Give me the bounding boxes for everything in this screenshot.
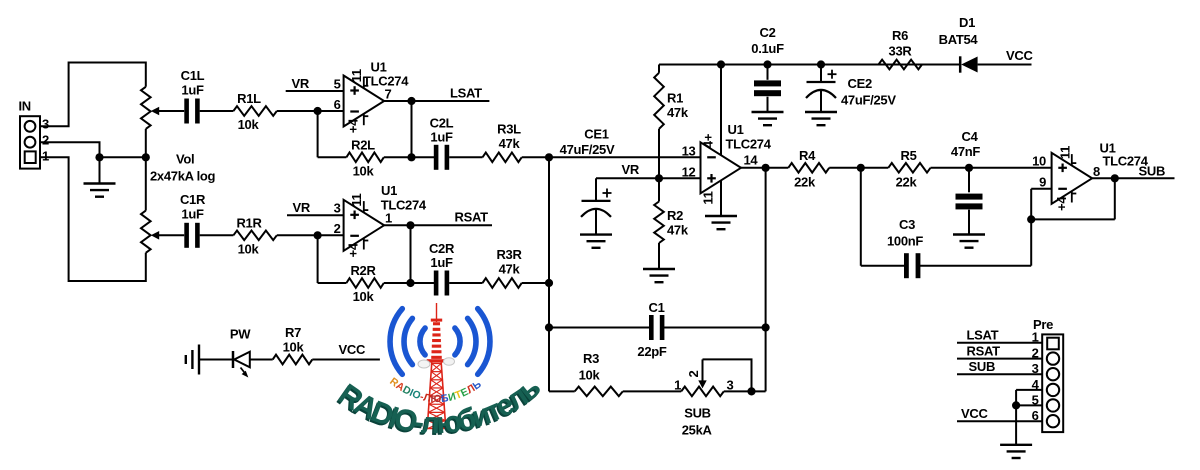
svg-text:+4: +4 [1054, 196, 1069, 211]
node mix L [545, 153, 553, 161]
svg-text:VCC: VCC [961, 406, 988, 421]
wire R3R to mix node [522, 282, 549, 284]
svg-text:1uF: 1uF [181, 83, 204, 98]
svg-text:10k: 10k [238, 117, 260, 132]
op-amp U1B TLC274 [344, 200, 385, 251]
svg-text:3: 3 [727, 377, 734, 392]
ground at input [99, 157, 101, 183]
wire ground to LED [199, 359, 233, 361]
svg-text:13: 13 [682, 143, 696, 158]
wiper arrow L [151, 107, 159, 116]
wire RSAT to pre [957, 358, 1042, 360]
svg-text:VCC: VCC [339, 342, 366, 357]
svg-text:3: 3 [42, 117, 49, 132]
node mix R [545, 279, 553, 287]
ground below CE1 [580, 233, 612, 235]
svg-text:22pF: 22pF [637, 344, 667, 359]
svg-text:33R: 33R [889, 44, 913, 59]
ground rotated PW [198, 345, 200, 375]
svg-text:14: 14 [744, 152, 759, 167]
svg-text:VR: VR [292, 76, 310, 91]
svg-text:C1: C1 [648, 300, 664, 315]
wire R3L to mix node [522, 156, 549, 158]
wire RSAT down to feedback row [410, 225, 412, 283]
wire D1 to VCC [978, 64, 1032, 66]
wire LSAT to pre [957, 342, 1042, 344]
svg-text:3: 3 [334, 201, 341, 216]
resistor R3 [575, 387, 623, 397]
wire VR junction to pin12 [659, 177, 701, 179]
svg-text:10k: 10k [353, 163, 375, 178]
wire pot to output column [724, 390, 766, 392]
wire pin3 to pot top [40, 63, 146, 127]
op-amp U1A power stub bottom [363, 114, 365, 126]
svg-text:CE2: CE2 [848, 76, 872, 91]
wire U1C power to ground [720, 180, 722, 216]
op-amp U1A TLC274 [344, 76, 385, 127]
node mix C1 [545, 323, 553, 331]
capacitor C1L [184, 99, 189, 124]
pot wiper arrow [698, 380, 706, 388]
wire VR to pin3 [287, 214, 344, 216]
svg-text:PW: PW [230, 327, 251, 342]
svg-text:100nF: 100nF [887, 234, 923, 249]
node feedback junction stage3 [1027, 215, 1035, 223]
node pin6 junction [314, 107, 322, 115]
wire R1R to op-amp pin2 [277, 234, 344, 236]
svg-text:0.1uF: 0.1uF [751, 41, 784, 56]
svg-text:10: 10 [1032, 154, 1046, 169]
svg-text:25kA: 25kA [682, 423, 713, 438]
wire stage2 output [741, 167, 788, 169]
svg-text:11: 11 [349, 193, 364, 206]
node feedback junction R [406, 279, 414, 287]
svg-text:U1: U1 [381, 183, 397, 198]
svg-text:R3R: R3R [496, 247, 522, 262]
node feedback junction L [407, 153, 415, 161]
svg-text:BAT54: BAT54 [939, 32, 979, 47]
svg-text:CE1: CE1 [584, 127, 608, 142]
capacitor C3 [904, 253, 909, 278]
svg-text:R4: R4 [799, 148, 816, 163]
resistor R2 column [658, 178, 660, 201]
svg-text:C2L: C2L [430, 116, 454, 131]
op-amp U1B power stub bottom [363, 238, 365, 250]
wire output column down [765, 168, 767, 392]
connector J1 IN [20, 116, 40, 168]
svg-text:Vol: Vol [176, 152, 194, 167]
node pin45 junction [1012, 401, 1020, 409]
ground below C2 [752, 111, 784, 113]
svg-text:+4: +4 [346, 118, 361, 133]
svg-text:VCC: VCC [1006, 48, 1033, 63]
svg-text:1uF: 1uF [430, 130, 453, 145]
potentiometer Vol lower half [145, 157, 147, 210]
wire R7 to VCC [312, 359, 380, 361]
resistor R3R [483, 278, 522, 288]
svg-text:1: 1 [1032, 330, 1039, 345]
wire feedback to output [1031, 218, 1115, 220]
CE1 plus sign [603, 192, 612, 194]
svg-text:10k: 10k [238, 241, 260, 256]
svg-text:3: 3 [1032, 361, 1039, 376]
wire C2L to R3L [449, 156, 482, 158]
wire R4 to R5 [829, 167, 888, 169]
node LSAT junction [407, 97, 415, 105]
svg-text:SUB: SUB [684, 406, 711, 421]
op-amp U1B power stub top [363, 201, 365, 213]
wire C1 row right [663, 327, 766, 329]
wire C1L to R1L [200, 110, 234, 112]
wire SUB to pre [957, 373, 1042, 375]
svg-text:2: 2 [1032, 346, 1039, 361]
svg-text:SUB: SUB [1139, 164, 1166, 179]
svg-text:1uF: 1uF [181, 207, 204, 222]
op-amp U1A power stub top [363, 77, 365, 89]
wire C2R to R3R [449, 282, 482, 284]
resistor R4 [788, 163, 829, 173]
wire mix column [548, 157, 550, 391]
op-amp U1A minus input [350, 110, 359, 112]
svg-text:R7: R7 [285, 325, 301, 340]
wire mix to pin13 [549, 156, 701, 158]
svg-text:RSAT: RSAT [967, 344, 1001, 359]
svg-text:2x47kA log: 2x47kA log [150, 169, 216, 184]
capacitor C2L [434, 145, 439, 170]
op-amp U1D power stub bottom [1071, 191, 1073, 203]
wire SUB output [1092, 177, 1174, 179]
resistor R3L [483, 153, 522, 163]
ground below CE2 [805, 111, 837, 113]
svg-text:VR: VR [293, 200, 311, 215]
resistor R5 [888, 163, 930, 173]
svg-text:U1: U1 [371, 60, 387, 75]
resistor R2R [346, 278, 383, 288]
connector J2 Pre [1042, 334, 1063, 432]
svg-text:12: 12 [682, 164, 696, 179]
potentiometer SUB 25kA [681, 387, 724, 397]
wire R3 to pot [623, 390, 681, 392]
svg-text:2: 2 [686, 370, 701, 377]
resistor R1L [233, 106, 276, 116]
node rail CE2 [817, 60, 825, 68]
wire LED to R7 [250, 359, 273, 361]
node pot junction [747, 387, 755, 395]
wire U1C power to rail [720, 65, 722, 156]
svg-text:5: 5 [1032, 392, 1039, 407]
wire VCC to pre [957, 420, 1042, 422]
capacitor CE1 electrolytic [595, 178, 597, 201]
svg-text:R1R: R1R [236, 215, 262, 230]
op-amp U1C minus input [707, 156, 716, 158]
svg-text:8: 8 [1093, 164, 1100, 179]
svg-text:R2L: R2L [351, 137, 375, 152]
capacitor C4 [968, 168, 970, 193]
svg-text:R1L: R1L [237, 91, 261, 106]
svg-text:C2: C2 [759, 25, 775, 40]
svg-text:22k: 22k [896, 174, 918, 189]
wire LSAT down to feedback row [411, 101, 413, 157]
wire C1 row left [549, 327, 651, 329]
wire pin1 to pot bottom [40, 157, 146, 281]
resistor R7 [273, 355, 313, 365]
svg-text:47uF/25V: 47uF/25V [560, 142, 615, 157]
ground below R2 [643, 268, 675, 270]
diode D1 BAT54 [959, 56, 962, 72]
node VR junction [655, 174, 663, 182]
ground below pre [1000, 444, 1032, 446]
node input-ground junction [95, 153, 103, 161]
op-amp U1D plus input [1058, 167, 1067, 169]
svg-text:LSAT: LSAT [967, 328, 999, 343]
wire R2L to C2L [384, 156, 434, 158]
wire ground node to pot center [100, 156, 146, 158]
svg-text:LSAT: LSAT [450, 85, 482, 100]
svg-text:6: 6 [1032, 408, 1039, 423]
svg-text:10k: 10k [353, 289, 375, 304]
LED arrow [241, 368, 247, 375]
svg-text:2: 2 [334, 221, 341, 236]
svg-text:22k: 22k [794, 174, 816, 189]
svg-text:RSAT: RSAT [455, 210, 489, 225]
svg-text:C2R: C2R [429, 241, 455, 256]
svg-text:47k: 47k [667, 223, 689, 238]
svg-text:47k: 47k [667, 105, 689, 120]
svg-text:R3L: R3L [497, 122, 521, 137]
wire wiper loop [703, 359, 752, 391]
svg-text:VR: VR [622, 162, 640, 177]
svg-text:5: 5 [334, 76, 341, 91]
node output C1 junction [762, 323, 770, 331]
svg-text:1: 1 [674, 377, 681, 392]
potentiometer Vol upper half [141, 87, 151, 129]
LED PW [232, 351, 235, 368]
op-amp U1B plus input [350, 214, 359, 216]
node RSAT junction [406, 221, 414, 229]
wire R2R to C2R [384, 282, 434, 284]
svg-text:7: 7 [385, 86, 392, 101]
wire pin4 pin5 ground column [1015, 390, 1017, 445]
svg-text:R5: R5 [900, 148, 916, 163]
op-amp U1D power stub top [1071, 154, 1073, 166]
wire RSAT output [384, 224, 492, 226]
node R4 R5 junction [857, 164, 865, 172]
svg-text:R2R: R2R [350, 263, 376, 278]
capacitor CE2 electrolytic [820, 65, 822, 83]
svg-text:9: 9 [1039, 175, 1046, 190]
wire pin2 to ground node [40, 142, 100, 157]
node rail op2 power [717, 60, 725, 68]
ground below U1C [705, 215, 737, 217]
wire feedback to pin9 [1030, 189, 1032, 220]
svg-text:10k: 10k [579, 368, 601, 383]
svg-text:D1: D1 [959, 15, 975, 30]
wire LSAT output [384, 100, 489, 102]
node SUB output junction [1111, 174, 1119, 182]
capacitor C1R [184, 223, 189, 248]
svg-text:2: 2 [42, 133, 49, 148]
wire pin5 to pre [1016, 404, 1042, 406]
resistor R1 column top [658, 65, 660, 73]
resistor R1R [233, 231, 276, 241]
svg-text:IN: IN [19, 99, 31, 114]
svg-text:47k: 47k [499, 262, 521, 277]
svg-text:47k: 47k [499, 136, 521, 151]
wire pin6 down to R2L [317, 111, 319, 157]
node pin2 junction [314, 231, 322, 239]
svg-text:47nF: 47nF [951, 144, 981, 159]
wire R1L to op-amp pin6 [277, 110, 344, 112]
op-amp U1A plus input [350, 89, 359, 91]
capacitor C2 [767, 65, 769, 80]
wire pin2 down to R2R [317, 235, 319, 283]
CE2 plus sign [828, 73, 837, 75]
resistor R6 [879, 60, 923, 70]
capacitor C1 [649, 315, 654, 340]
wiper arrow R [151, 231, 159, 240]
svg-text:+4: +4 [346, 242, 361, 257]
wire C1R to R1R [200, 234, 234, 236]
svg-text:4+: 4+ [701, 133, 716, 148]
svg-text:C1L: C1L [181, 68, 205, 83]
svg-text:TLC274: TLC274 [381, 198, 427, 213]
wire R3 row left [549, 390, 575, 392]
wire pin4 to pre [1016, 389, 1042, 391]
svg-text:SUB: SUB [969, 359, 996, 374]
resistor R2L [346, 153, 383, 163]
op-amp U1B minus input [350, 235, 359, 237]
svg-text:11: 11 [701, 191, 716, 204]
svg-text:1: 1 [385, 210, 392, 225]
wire R5 to pin10 [931, 167, 1052, 169]
logo wifi arcs [420, 328, 425, 355]
svg-text:R1: R1 [667, 91, 683, 106]
op-amp U1D TLC274 [1052, 153, 1093, 204]
svg-text:10k: 10k [283, 340, 305, 355]
svg-text:TLC274: TLC274 [726, 137, 772, 152]
node rail C2 [763, 60, 771, 68]
svg-text:C4: C4 [961, 129, 978, 144]
wire VR to pin5 [286, 90, 344, 92]
svg-text:C3: C3 [899, 217, 915, 232]
wire R4R5 node down to C3 [860, 168, 862, 266]
node pot center junction [142, 153, 150, 161]
logo radio tower [436, 303, 438, 322]
svg-text:1: 1 [42, 149, 49, 164]
svg-text:11: 11 [349, 69, 364, 82]
svg-text:R2: R2 [667, 208, 683, 223]
svg-text:C1R: C1R [180, 192, 206, 207]
wire R6 to D1 [922, 64, 960, 66]
svg-text:11: 11 [1058, 146, 1073, 159]
op-amp U1D minus input [1058, 188, 1067, 190]
op-amp U1C plus input [707, 177, 716, 179]
node stage2 output junction [762, 164, 770, 172]
svg-text:47uF/25V: 47uF/25V [841, 93, 896, 108]
svg-text:U1: U1 [728, 122, 744, 137]
wire VR node row [596, 177, 659, 179]
svg-text:6: 6 [334, 97, 341, 112]
svg-text:R3: R3 [583, 351, 599, 366]
op-amp U1C TLC274 [701, 142, 742, 193]
wire C3 to feedback node [919, 265, 1032, 267]
svg-text:TLC274: TLC274 [363, 74, 409, 89]
capacitor C2R [434, 271, 439, 296]
wire top rail [659, 64, 960, 66]
ground below C4 [953, 233, 985, 235]
node C4 junction [965, 164, 973, 172]
svg-text:R6: R6 [892, 28, 908, 43]
svg-text:1uF: 1uF [430, 255, 453, 270]
svg-text:4: 4 [1032, 377, 1040, 392]
